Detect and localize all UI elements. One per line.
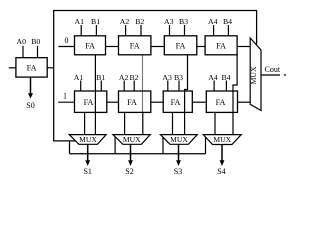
wire FA4b carry to mux [238,101,251,103]
wire A3 stub [169,25,171,36]
wire B0 stub [37,46,39,58]
full adder FA0 [16,58,47,77]
svg-text:FA: FA [130,41,140,50]
svg-text:B1: B1 [96,73,105,82]
svg-text:S0: S0 [26,101,34,110]
wire A4 stub [213,25,215,36]
wire sum3 row0 jog [185,55,188,135]
svg-text:FA: FA [84,98,94,107]
wire S3 shaft [178,144,180,161]
wire B2 stub [140,25,142,36]
svg-text:FA: FA [176,41,186,50]
wire S0 arrowhead [28,93,33,98]
svg-text:MUX: MUX [79,135,97,144]
row2 sum wires [85,112,215,134]
wire sum3 row2 [172,112,174,134]
wire FA2-FA3 carry [151,46,164,48]
wire S4 arrowhead [220,160,225,166]
svg-text:B4: B4 [221,73,230,82]
wire sum4 row2 [214,112,216,134]
svg-text:A4: A4 [208,73,218,82]
wire sum2 row0 lower [142,112,144,134]
svg-text:FA: FA [216,98,226,107]
wire MUX4 select tap [205,137,207,154]
svg-text:MUX: MUX [249,66,258,85]
svg-text:A0: A0 [17,37,27,46]
wire A0 stub [22,46,24,58]
wire c1 drop to select bus [69,141,71,154]
row0 carry chain wires [106,46,251,48]
wire FA3-FA4 carry [197,46,205,48]
wire B2b stub [133,81,135,92]
svg-text:FA: FA [85,41,95,50]
full adder FA3b (cin 1) [163,91,192,112]
mux output arrows [88,144,222,161]
svg-text:A1: A1 [75,17,85,26]
wire S2 arrowhead [128,160,133,166]
svg-text:MUX: MUX [213,135,231,144]
wire B4 stub [227,25,229,36]
wire sum4 row0 jog [233,55,237,135]
svg-text:MUX: MUX [170,135,188,144]
svg-text:FA: FA [27,63,37,72]
svg-text:B2: B2 [135,17,144,26]
svg-text:A3: A3 [162,73,172,82]
wire S4 shaft [221,144,223,161]
full adder FA2b (cin 1) [119,91,151,112]
full adder FA2 (cin 0) [119,36,151,55]
wire FA4 carry to mux [237,46,250,48]
svg-text:FA: FA [216,41,226,50]
row0 sum wires [95,55,237,135]
full adder FA1 (cin 0) [75,36,106,55]
wire sum1 row2 [84,112,86,134]
wire A2b stub [123,81,125,92]
wire B3 stub [184,25,186,36]
wire FA3b-FA4b carry [192,101,206,103]
wire S1 shaft [87,144,89,161]
wire MUX3 select tap [162,137,164,154]
wire FA2b-FA3b carry [151,101,163,103]
wire c1 left vertical and top rail [54,11,257,141]
svg-text:Cout: Cout [265,65,281,74]
mux MUX5 (carry-out mux) [249,38,261,111]
wire FA1-FA2 carry [106,46,119,48]
wire FA1b-FA2b carry [107,101,119,103]
wire sum2 row0 upper [142,55,144,113]
wire 1 to FA1b [58,101,74,103]
svg-text:1: 1 [63,92,67,101]
wire S1 arrowhead [85,160,90,166]
wire sum1 row0 [94,55,96,135]
svg-text:MUX: MUX [123,135,141,144]
mux MUX2 [113,135,150,145]
svg-text:B4: B4 [223,17,232,26]
wire B1 stub [95,25,97,36]
wire select bus bottom [70,153,206,155]
svg-text:S4: S4 [217,167,225,176]
svg-text:A3: A3 [164,17,174,26]
wire B4b stub [225,81,227,92]
svg-text:B3: B3 [179,17,188,26]
wire S0 shaft [30,77,32,94]
wire A1b stub [80,81,82,92]
svg-text:FA: FA [171,98,181,107]
wire FA0 carry-out to c1 [47,67,54,69]
svg-text:S1: S1 [83,167,91,176]
mux select taps [115,137,205,154]
wire S3 arrowhead [176,160,181,166]
svg-text:S3: S3 [174,167,182,176]
svg-text:B0: B0 [31,37,40,46]
full adder FA4 (cin 0) [205,36,237,55]
full adder FA4b (cin 1) [206,91,237,112]
svg-text:B3: B3 [174,73,183,82]
svg-text:B2: B2 [129,73,138,82]
wire B3b stub [178,81,180,92]
svg-text:A4: A4 [208,17,218,26]
full adder FA3 (cin 0) [164,36,197,55]
wire B1b stub [100,81,102,92]
wire Cout edge tick [284,74,286,76]
wire sum2 row2 [124,112,126,134]
full adder FA1b (cin 1) [75,91,107,112]
row2 carry chain wires [107,101,250,103]
mux MUX4 [203,135,241,145]
svg-text:B1: B1 [91,17,100,26]
svg-text:S2: S2 [125,167,133,176]
wire 0 to FA1 [58,46,74,48]
svg-text:A2: A2 [119,73,129,82]
wire MUX2 select tap [114,137,116,154]
wire Cout [261,74,280,76]
svg-text:FA: FA [127,98,137,107]
svg-text:A2: A2 [120,17,130,26]
svg-text:A1: A1 [74,73,84,82]
wire A3b stub [167,81,169,92]
wire A1 stub [80,25,82,36]
svg-text:0: 0 [65,36,69,45]
wire A2 stub [125,25,127,36]
mux MUX3 [160,135,197,145]
wire A4b stub [213,81,215,92]
mux MUX1 [69,135,106,145]
wire cin stub [9,67,16,69]
wire S2 shaft [130,144,132,161]
